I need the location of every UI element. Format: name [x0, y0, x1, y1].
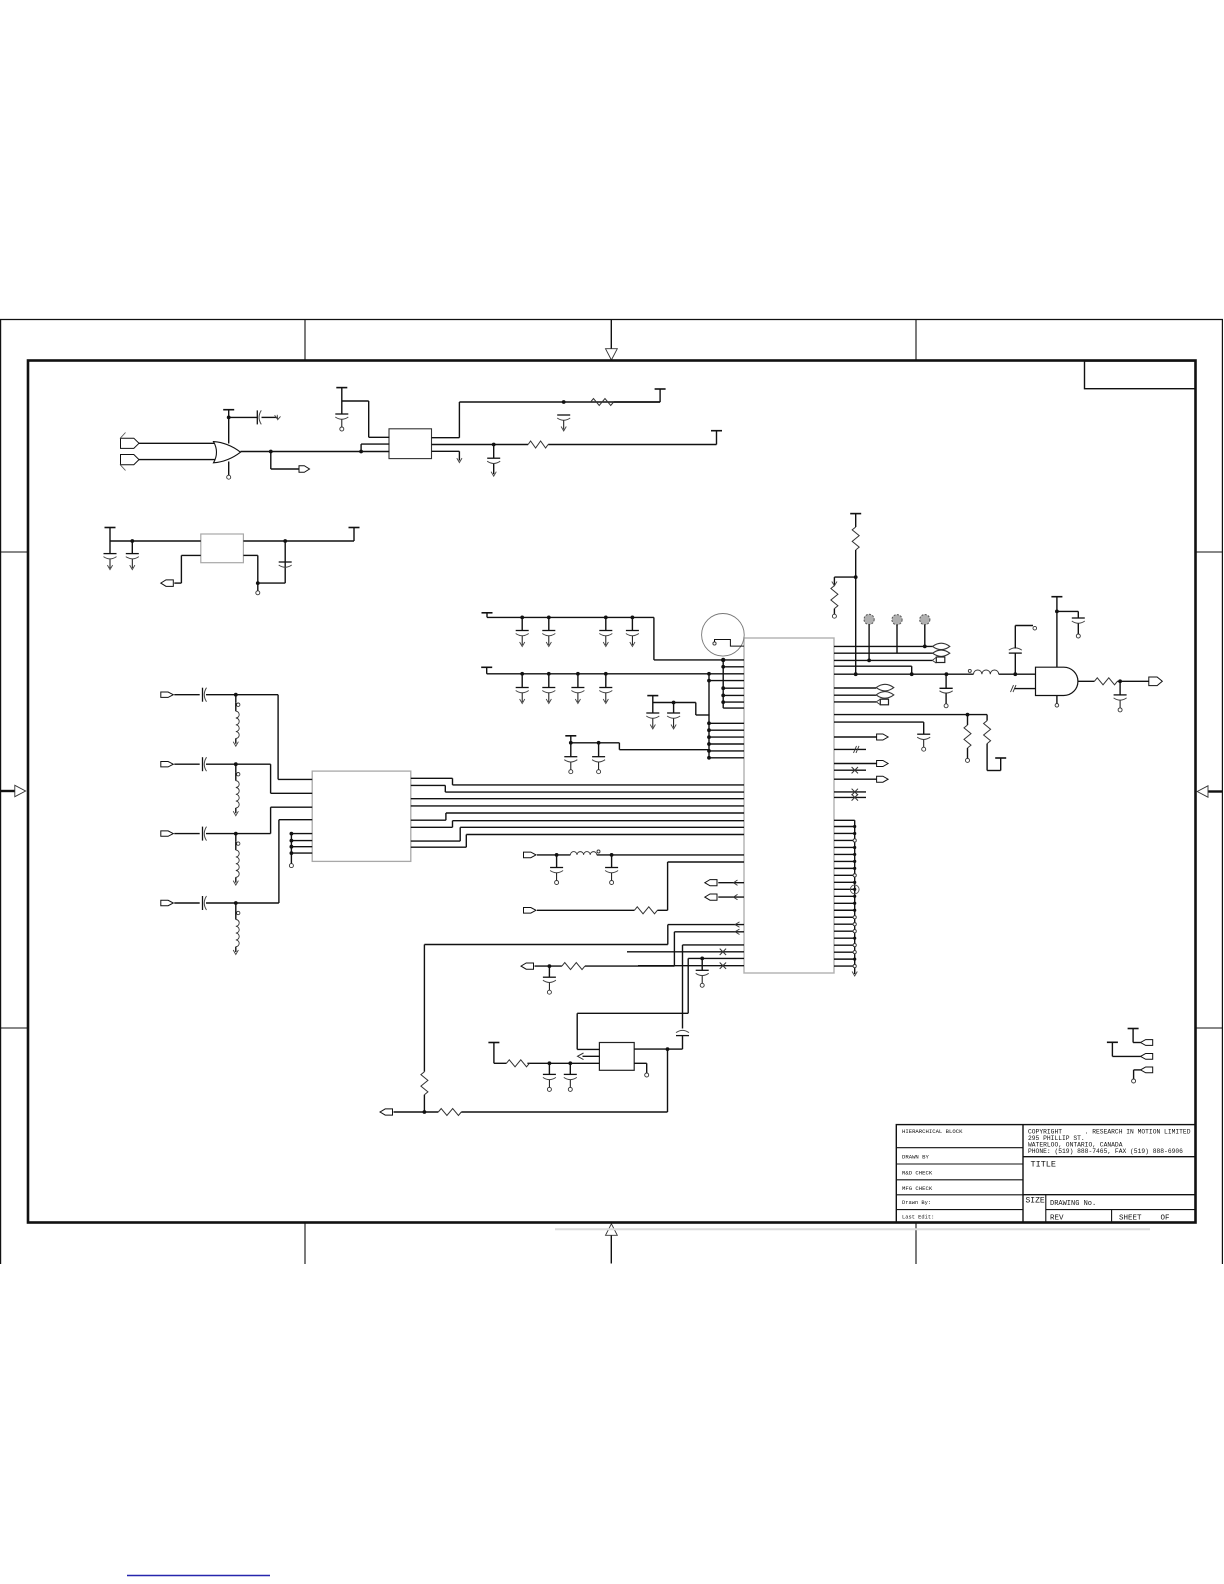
svg-text:HIERARCHICAL BLOCK: HIERARCHICAL BLOCK: [902, 1128, 963, 1135]
svg-text:SHEET: SHEET: [1119, 1215, 1142, 1223]
svg-text:Drawn By:: Drawn By:: [902, 1200, 931, 1206]
svg-text:SIZE: SIZE: [1026, 1197, 1045, 1206]
svg-text:Last Edit:: Last Edit:: [902, 1215, 934, 1221]
svg-text:DRAWING No.: DRAWING No.: [1050, 1200, 1096, 1208]
svg-text:R&D CHECK: R&D CHECK: [902, 1169, 933, 1176]
svg-text:MFG CHECK: MFG CHECK: [902, 1185, 933, 1192]
svg-text:PHONE: (519) 888-7465, FAX (51: PHONE: (519) 888-7465, FAX (519) 888-690…: [1028, 1148, 1183, 1155]
svg-text:OF: OF: [1161, 1215, 1170, 1223]
svg-text:DRAWN BY: DRAWN BY: [902, 1154, 929, 1161]
svg-text:TITLE: TITLE: [1031, 1160, 1057, 1170]
svg-text:REV: REV: [1050, 1215, 1064, 1223]
